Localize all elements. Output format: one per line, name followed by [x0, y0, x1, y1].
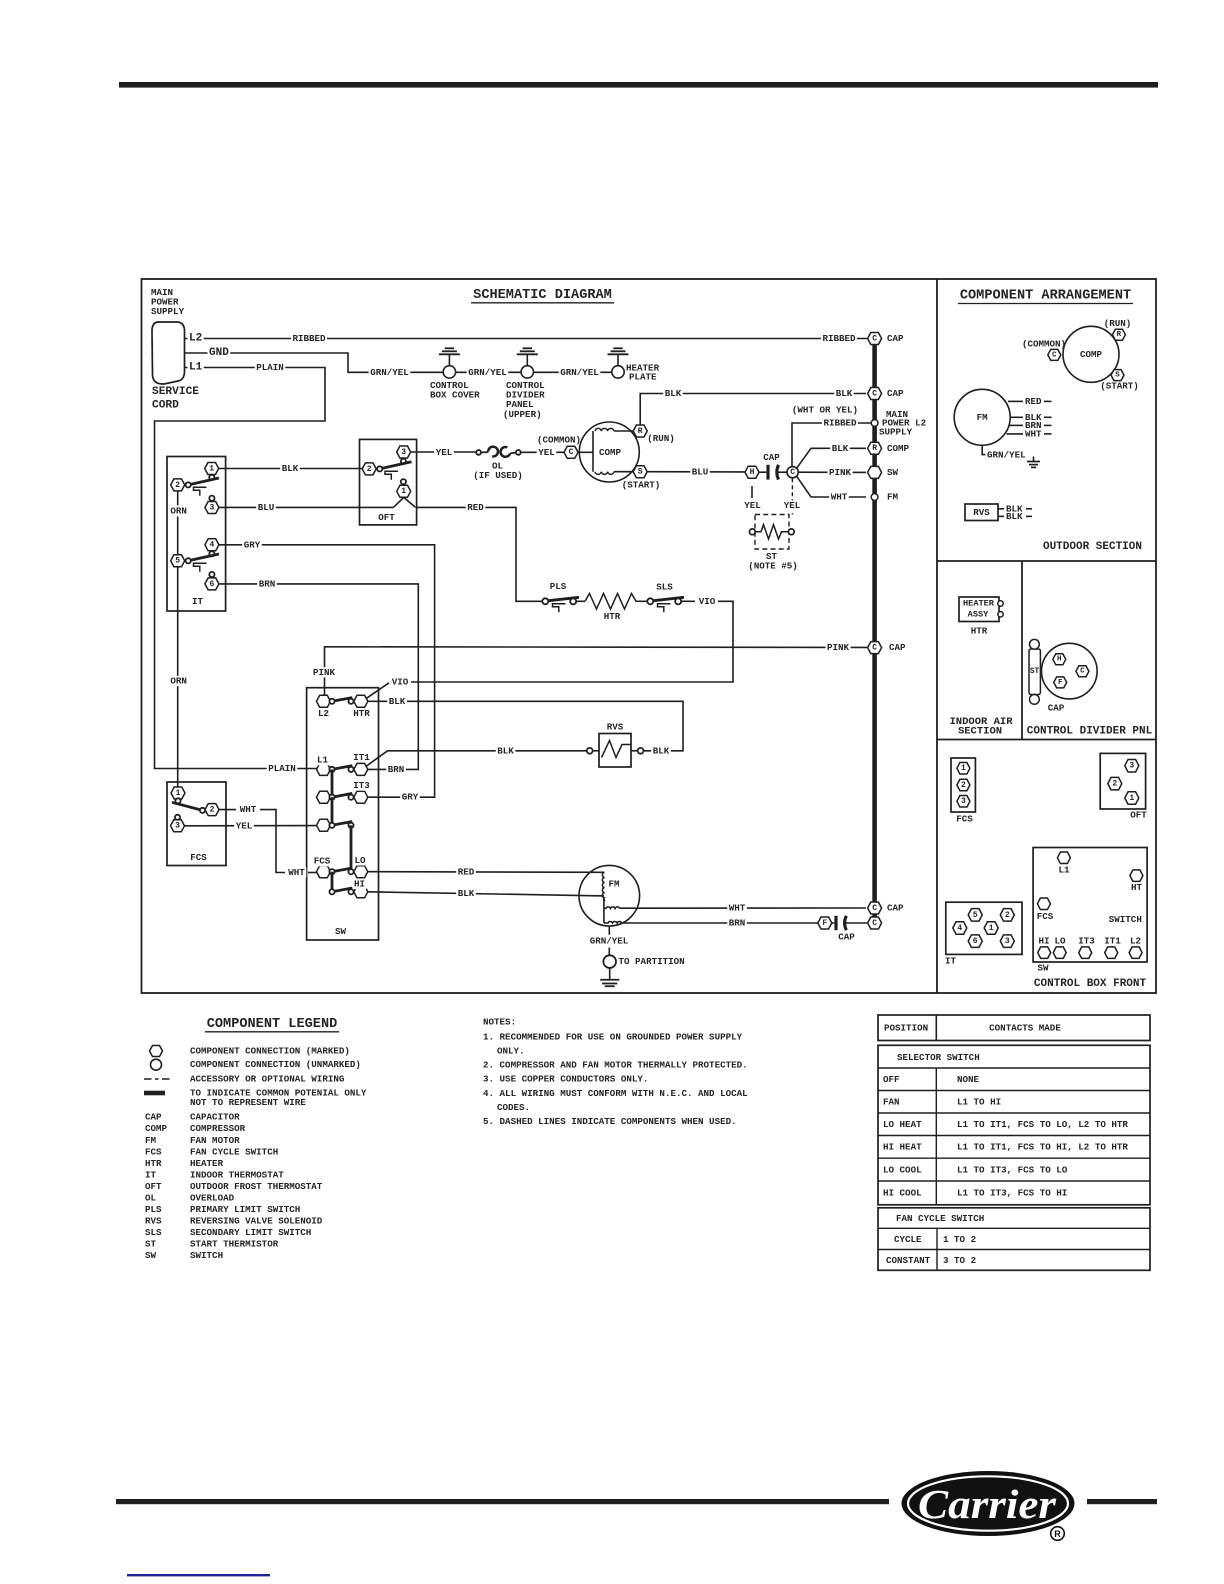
heater assembly box [959, 597, 999, 622]
svg-text:CAP: CAP [838, 932, 855, 943]
wire RIBBED (WHT OR YEL) from bus to C [792, 423, 871, 467]
svg-text:(COMMON): (COMMON) [1022, 339, 1066, 350]
wire label ORN (inside IT) [170, 505, 187, 516]
svg-text:LO: LO [1054, 936, 1066, 947]
service cord connector [152, 322, 185, 384]
SW L2 blade to HTR [332, 698, 352, 702]
wire label ORN (below IT) [169, 676, 189, 686]
svg-text:SW: SW [335, 926, 347, 937]
panel divider: schematic | component arrangement [936, 279, 938, 993]
svg-text:SUPPLY: SUPPLY [879, 426, 913, 437]
svg-text:1 TO 2: 1 TO 2 [943, 1234, 976, 1245]
svg-text:2: 2 [367, 465, 372, 474]
RVS solenoid element [602, 741, 632, 758]
CAP terminal C [1076, 666, 1089, 677]
svg-text:1: 1 [989, 924, 994, 933]
Carrier logo [902, 1471, 1075, 1536]
svg-text:PLAIN: PLAIN [256, 362, 284, 373]
FCS pin 3 [171, 820, 185, 832]
svg-text:SECTION: SECTION [958, 725, 1002, 737]
OFT switch actuator [385, 471, 398, 480]
IT plate pin 4 [953, 922, 967, 935]
svg-text:FCS: FCS [190, 852, 207, 863]
svg-text:FCS: FCS [956, 813, 973, 824]
FM winding link [603, 899, 605, 924]
svg-text:FCS: FCS [314, 856, 331, 867]
svg-text:CYCLE: CYCLE [894, 1234, 922, 1245]
svg-text:OUTDOOR SECTION: OUTDOOR SECTION [1043, 541, 1142, 553]
fan cycle table column divider [936, 1228, 938, 1270]
SW terminal FCS [317, 866, 331, 878]
svg-text:C: C [1052, 351, 1057, 359]
svg-text:R: R [1054, 1529, 1061, 1539]
wire BLK selector HI to fan motor [368, 892, 604, 896]
svg-text:HI: HI [1038, 936, 1049, 947]
fan capacitor CAP plates [832, 922, 835, 924]
wire label PLAIN (at selector) [267, 763, 298, 773]
svg-text:YEL: YEL [784, 500, 801, 511]
wire label PINK (vertical) [312, 667, 337, 677]
wire label BLK (right of RVS) [651, 746, 671, 756]
svg-text:IT: IT [192, 596, 204, 607]
wire label WHT (at selector) [287, 867, 307, 877]
page top rule [119, 82, 1158, 88]
svg-text:GRY: GRY [402, 792, 419, 803]
OFT plate pin 1 [1125, 792, 1139, 805]
svg-text:CAP: CAP [763, 452, 780, 463]
bus junction FM [871, 494, 878, 501]
OFT switch blade [380, 462, 412, 469]
FCS pin 1 [171, 787, 185, 799]
page bottom rule right segment [1087, 1499, 1157, 1504]
svg-text:COMPONENT ARRANGEMENT: COMPONENT ARRANGEMENT [960, 289, 1131, 304]
overload OL symbol [476, 450, 481, 455]
wire label BLK (left of RVS) [496, 746, 516, 756]
ground symbol above control divider panel [517, 353, 538, 355]
OFT pin 3 [397, 446, 411, 458]
RVS lead BLK 2 [998, 515, 1004, 517]
svg-text:CAP: CAP [889, 642, 906, 653]
COMP run terminal R [633, 425, 647, 437]
svg-text:PINK: PINK [829, 467, 852, 478]
svg-text:(UPPER): (UPPER) [503, 409, 542, 420]
wire GRY IT3 to IT pin4 [219, 545, 435, 797]
wire label BRN (at IT) [257, 579, 277, 589]
wire YEL stub below H [751, 486, 753, 498]
svg-text:HI: HI [354, 879, 365, 890]
svg-text:WHT: WHT [729, 903, 746, 914]
svg-text:CAP: CAP [145, 1112, 162, 1123]
OFT pin 3 contact [401, 459, 406, 464]
svg-text:NOT TO REPRESENT WIRE: NOT TO REPRESENT WIRE [190, 1097, 306, 1108]
svg-text:WHT: WHT [1025, 428, 1042, 439]
fan cycle switch table box [878, 1208, 1150, 1271]
ground circle CONTROL DIVIDER PANEL [521, 366, 533, 378]
svg-text:COMPONENT CONNECTION (MARKED): COMPONENT CONNECTION (MARKED) [190, 1046, 350, 1057]
svg-text:COMP: COMP [599, 447, 622, 458]
FCS plate pin 3 [957, 796, 970, 808]
svg-text:FAN CYCLE SWITCH: FAN CYCLE SWITCH [896, 1213, 984, 1224]
arrangement COMP terminal C [1048, 349, 1061, 360]
svg-text:CONTROL BOX FRONT: CONTROL BOX FRONT [1034, 978, 1147, 990]
svg-text:OUTDOOR FROST THERMOSTAT: OUTDOOR FROST THERMOSTAT [190, 1181, 323, 1192]
SW terminal L1 [317, 763, 331, 775]
svg-text:RIBBED: RIBBED [292, 333, 326, 344]
wire YEL OL to COMP common [520, 451, 564, 453]
wire WHT FM to CAP bus [620, 907, 866, 909]
legend hexagon symbol [150, 1046, 163, 1057]
svg-text:SW: SW [1037, 962, 1049, 973]
svg-text:RIBBED: RIBBED [823, 418, 857, 429]
svg-text:L2: L2 [1130, 936, 1141, 947]
svg-text:S: S [1115, 372, 1120, 380]
fan motor FM [579, 865, 640, 926]
svg-text:6: 6 [973, 937, 978, 946]
svg-text:SLS: SLS [656, 582, 673, 593]
ST right terminal [788, 529, 794, 535]
svg-text:4. ALL WIRING MUST CONFORM WIT: 4. ALL WIRING MUST CONFORM WITH N.E.C. A… [483, 1088, 748, 1099]
svg-text:BRN: BRN [729, 918, 746, 929]
svg-text:5. DASHED LINES INDICATE COMPO: 5. DASHED LINES INDICATE COMPONENTS WHEN… [483, 1116, 737, 1127]
legend circle symbol [151, 1059, 162, 1070]
svg-text:(NOTE #5): (NOTE #5) [748, 561, 798, 572]
svg-text:HEATER: HEATER [963, 599, 995, 609]
wire ORN IT pin5 to FCS pin1 [177, 567, 179, 786]
OFT pin 1 connection legs [393, 497, 403, 507]
svg-text:SERVICE: SERVICE [152, 386, 199, 398]
footer blue link underline [127, 1574, 270, 1576]
svg-text:(RUN): (RUN) [647, 433, 675, 444]
svg-text:IT3: IT3 [353, 780, 370, 791]
svg-text:L1 TO HI: L1 TO HI [957, 1097, 1001, 1108]
wire label RIBBED [291, 333, 327, 343]
svg-text:(START): (START) [622, 480, 661, 491]
OFT pin 1 [397, 485, 411, 497]
IT pin 1 contact [209, 475, 214, 480]
registered trademark symbol [1051, 1527, 1065, 1541]
svg-text:COMP: COMP [145, 1123, 168, 1134]
wire BLU IT pin3 to OFT pin1 [219, 506, 394, 508]
IT pin 4 [205, 539, 219, 551]
wire VIO diagonal into selector HTR terminal [367, 683, 390, 699]
svg-text:PLS: PLS [145, 1204, 162, 1215]
svg-text:SWITCH: SWITCH [1109, 914, 1142, 925]
FCS plate pin 2 [957, 779, 970, 791]
CAP terminal F [1054, 677, 1067, 688]
bus terminal C CAP (pink) [868, 642, 882, 654]
svg-text:HT: HT [1131, 882, 1143, 893]
wire label RED [466, 502, 486, 512]
svg-text:FCS: FCS [1037, 911, 1054, 922]
svg-text:C: C [872, 904, 877, 913]
wire label BLK (fan) [456, 889, 476, 899]
FCS pin 2 [205, 804, 219, 816]
svg-text:2: 2 [175, 481, 180, 490]
svg-text:L2: L2 [189, 333, 202, 345]
svg-text:R: R [638, 427, 643, 436]
SW terminal HTR [354, 695, 368, 707]
outdoor frost thermostat OFT box [360, 439, 417, 525]
svg-text:ORN: ORN [170, 505, 187, 516]
svg-text:2: 2 [210, 806, 215, 815]
wire label PLAIN (top) [255, 362, 286, 372]
svg-text:RVS: RVS [973, 507, 990, 518]
svg-text:L1 TO IT3, FCS TO HI: L1 TO IT3, FCS TO HI [957, 1188, 1067, 1199]
page bottom rule left segment [116, 1499, 889, 1504]
svg-text:R: R [872, 444, 877, 453]
svg-text:HTR: HTR [145, 1158, 162, 1169]
svg-text:3: 3 [961, 797, 966, 806]
svg-text:H: H [750, 468, 755, 477]
IT pin 2 pivot contact [186, 482, 191, 487]
SW terminal IT3 [354, 791, 368, 803]
svg-text:COMP: COMP [887, 443, 910, 454]
bus terminal R COMP [868, 442, 882, 454]
svg-text:CAP: CAP [887, 903, 904, 914]
svg-text:S: S [638, 468, 643, 477]
SW FCS blade to LO [332, 868, 352, 872]
IT plate pin 2 [1000, 909, 1014, 922]
schematic outer frame [142, 279, 1157, 993]
IT pin 6 contact [209, 572, 214, 577]
svg-text:(IF USED): (IF USED) [473, 470, 523, 481]
OFT pin 2 pivot contact [377, 466, 382, 471]
svg-text:BRN: BRN [388, 764, 405, 775]
SW plate terminal L1 [1057, 852, 1070, 864]
svg-text:L1: L1 [317, 755, 329, 766]
FM lead GRN/YEL [982, 445, 985, 454]
svg-text:SCHEMATIC DIAGRAM: SCHEMATIC DIAGRAM [473, 288, 612, 303]
wire VIO SLS down to selector HTR [681, 600, 695, 602]
IT pin 5 [171, 555, 185, 567]
CAP terminal H [1053, 654, 1066, 665]
svg-text:OL: OL [145, 1192, 157, 1203]
SW plate terminal HT [1130, 870, 1143, 882]
svg-text:C: C [872, 919, 877, 928]
wire ORN pin2 to pin5 [177, 492, 179, 555]
IT pin 5 pivot contact [186, 558, 191, 563]
wire label BLK (left) [663, 388, 683, 398]
svg-text:SELECTOR SWITCH: SELECTOR SWITCH [897, 1052, 980, 1063]
svg-text:FCS: FCS [145, 1146, 162, 1157]
svg-text:C: C [872, 334, 877, 343]
svg-text:BLK: BLK [653, 745, 670, 756]
svg-text:VIO: VIO [699, 596, 716, 607]
wire GND to ground circles [184, 353, 443, 372]
FM lead WHT [1007, 433, 1024, 435]
svg-text:L1: L1 [189, 362, 203, 374]
bus terminal SW [868, 466, 882, 478]
svg-text:FM: FM [977, 412, 989, 423]
svg-text:IT1: IT1 [1104, 936, 1121, 947]
svg-text:F: F [822, 919, 827, 928]
wire C to PINK (to SW on bus) [798, 471, 866, 473]
svg-text:YEL: YEL [236, 820, 253, 831]
svg-text:BLK: BLK [389, 696, 406, 707]
terminal label L1 [188, 362, 204, 374]
svg-text:CORD: CORD [152, 400, 179, 412]
wire BLK IT1 diagonal to RVS [367, 751, 587, 766]
svg-text:GRY: GRY [244, 539, 261, 550]
IT switch actuator (lower) [194, 563, 207, 572]
wire label YEL [434, 447, 454, 457]
selector table column divider [935, 1068, 937, 1205]
bus junction MAIN POWER L2 SUPPLY [871, 420, 878, 427]
svg-text:CONSTANT: CONSTANT [886, 1255, 931, 1266]
svg-text:C: C [872, 389, 877, 398]
control box front OFT plate [1100, 753, 1145, 809]
svg-text:BLU: BLU [258, 502, 275, 513]
svg-text:HTR: HTR [604, 611, 621, 622]
FM lead BLK [1010, 416, 1023, 418]
arrangement ST capsule [1029, 649, 1040, 695]
svg-text:YEL: YEL [744, 500, 761, 511]
FM label [607, 879, 621, 889]
svg-text:CODES.: CODES. [497, 1102, 530, 1113]
terminal label L2 [188, 333, 204, 345]
svg-text:RVS: RVS [145, 1215, 162, 1226]
svg-text:SUPPLY: SUPPLY [151, 306, 185, 317]
svg-text:1: 1 [401, 487, 406, 496]
svg-text:F: F [1058, 679, 1063, 687]
svg-text:LO HEAT: LO HEAT [883, 1119, 922, 1130]
svg-text:6: 6 [209, 580, 214, 589]
svg-text:FM: FM [145, 1135, 157, 1146]
svg-text:WHT: WHT [831, 492, 848, 503]
label (WHT OR YEL) [790, 405, 859, 415]
svg-text:ASSY: ASSY [968, 609, 989, 619]
run capacitor terminal C junction [787, 467, 798, 478]
bus terminal C CAP (wht) [868, 902, 882, 914]
ground symbol (partition) [609, 968, 611, 980]
wire label BLK (right) [834, 388, 854, 398]
terminal label GND [208, 347, 231, 359]
secondary limit switch SLS [640, 600, 648, 602]
primary limit switch PLS [542, 598, 548, 604]
svg-text:BOX COVER: BOX COVER [430, 390, 480, 401]
svg-text:SECONDARY LIMIT SWITCH: SECONDARY LIMIT SWITCH [190, 1227, 311, 1238]
svg-text:2. COMPRESSOR AND FAN MOTOR TH: 2. COMPRESSOR AND FAN MOTOR THERMALLY PR… [483, 1060, 748, 1071]
svg-text:(RUN): (RUN) [1104, 318, 1132, 329]
svg-text:PLS: PLS [550, 581, 567, 592]
svg-text:2: 2 [1112, 780, 1117, 789]
svg-text:4: 4 [957, 924, 962, 933]
start thermistor ST dashed box [755, 515, 789, 550]
COMP common terminal C [564, 446, 578, 458]
svg-text:1: 1 [176, 789, 181, 798]
ST left terminal [749, 529, 755, 535]
svg-text:ACCESSORY OR OPTIONAL WIRING: ACCESSORY OR OPTIONAL WIRING [190, 1074, 345, 1085]
RVS lead BLK 1 [998, 508, 1004, 510]
main power L2 bus (common potential bar) [872, 339, 877, 928]
IT pin 3 contact [209, 496, 214, 501]
bus terminal C CAP (ribbed) [868, 333, 882, 345]
bus terminal C CAP (blk) [868, 388, 882, 400]
arrangement FM motor circle [954, 389, 1010, 445]
wire RED OFT to PLS [417, 507, 543, 601]
TO PARTITION terminal [603, 955, 616, 968]
svg-text:RED: RED [1025, 396, 1042, 407]
wire label VIO (at selector) [390, 677, 410, 687]
wire BRN FM to fan capacitor [622, 922, 818, 924]
wire label GRY (at IT) [242, 540, 262, 550]
wire YEL OFT pin3 to OL [411, 451, 478, 453]
arrangement COMP motor circle [1063, 326, 1119, 382]
IT switch blade 2-1 [188, 478, 219, 485]
FCS pin 1 contact [175, 798, 180, 803]
arrangement COMP terminal S [1111, 370, 1124, 381]
svg-text:OFT: OFT [1130, 809, 1147, 820]
SW pole link FCS to HI row [331, 872, 334, 892]
bus terminal C (fan capacitor) [868, 917, 882, 929]
SW L1 blade to IT1 [332, 766, 352, 770]
wire C to WHT (to FM on bus) [797, 476, 866, 497]
IT pin 4 contact [209, 551, 214, 556]
IT pin 3 [205, 502, 219, 514]
svg-text:RED: RED [458, 866, 475, 877]
RVS right terminal [638, 748, 644, 754]
svg-text:BLK: BLK [282, 463, 299, 474]
svg-text:NONE: NONE [957, 1074, 980, 1085]
wire BRN IT1 to IT pin6 [219, 584, 418, 770]
wire label BLK [280, 463, 300, 473]
FCS pin 2 pivot contact [200, 808, 205, 813]
wire L2 RIBBED to CAP bus [184, 338, 867, 340]
svg-text:L1 TO IT1, FCS TO LO, L2 TO HT: L1 TO IT1, FCS TO LO, L2 TO HTR [957, 1119, 1128, 1130]
wire YEL FCS pin3 to selector [185, 825, 318, 827]
wire PINK selector L2 to CAP bus [325, 647, 868, 695]
FM lead RED [1008, 400, 1023, 402]
indoor thermostat IT box [167, 457, 226, 612]
wire RED selector LO to fan motor [368, 871, 605, 874]
wire WHT FCS pin2 to selector FCS [219, 809, 236, 811]
FCS blade 1-2 [172, 802, 203, 810]
svg-text:PINK: PINK [313, 667, 336, 678]
svg-text:BLK: BLK [832, 443, 849, 454]
FM main winding [602, 872, 605, 901]
svg-text:GRN/YEL: GRN/YEL [370, 367, 409, 378]
SW pole link IT3 to YEL row [331, 797, 334, 825]
svg-text:GRN/YEL: GRN/YEL [560, 367, 599, 378]
svg-text:IT: IT [945, 955, 957, 966]
wire C to BLK (to COMP R on bus) [797, 448, 866, 468]
svg-text:RED: RED [467, 502, 484, 513]
SW YEL-row blade [332, 822, 352, 826]
control box front FCS plate [951, 758, 975, 812]
legend dashed wire symbol [144, 1078, 170, 1080]
svg-text:OVERLOAD: OVERLOAD [190, 1192, 235, 1203]
svg-text:TO PARTITION: TO PARTITION [619, 956, 685, 967]
SW terminal IT1 [354, 763, 368, 775]
FM aux winding 1 (WHT) [604, 907, 620, 909]
svg-text:3: 3 [1129, 762, 1134, 771]
svg-text:HTR: HTR [971, 626, 988, 637]
IT switch actuator (upper) [194, 487, 207, 496]
IT plate pin 3 [1000, 935, 1014, 948]
svg-text:1: 1 [209, 464, 214, 473]
svg-text:L1 TO IT3, FCS TO LO: L1 TO IT3, FCS TO LO [957, 1165, 1068, 1176]
ground symbol above control box cover [439, 353, 460, 355]
wire label YEL [234, 821, 254, 831]
COMP start terminal S [633, 466, 647, 478]
svg-text:OFT: OFT [145, 1181, 162, 1192]
svg-text:VIO: VIO [392, 677, 409, 688]
wire label BLK (selector) [387, 696, 407, 706]
wire BLU COMP S to capacitor H [647, 471, 745, 473]
arrangement CAP circle [1042, 643, 1098, 699]
svg-text:PLAIN: PLAIN [268, 763, 296, 774]
svg-text:3: 3 [401, 448, 406, 457]
